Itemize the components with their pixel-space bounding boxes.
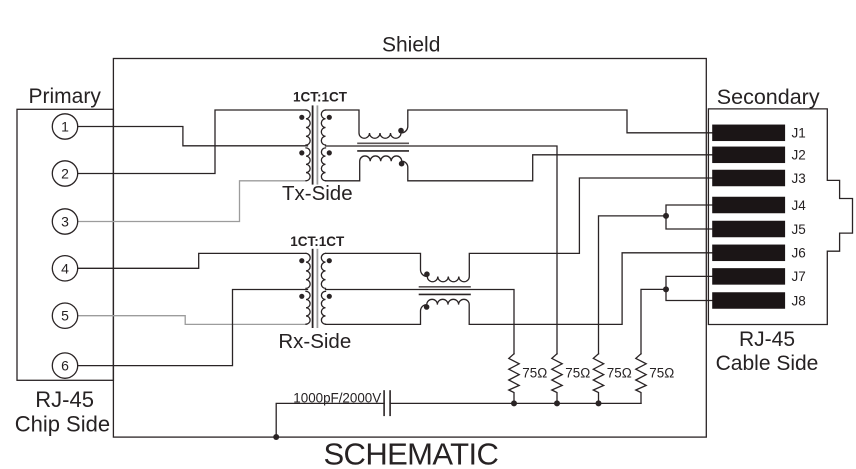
svg-text:J8: J8	[792, 293, 806, 308]
pin 2 circle	[52, 161, 77, 186]
pin 5 circle	[52, 303, 77, 328]
pin 3 circle	[52, 209, 77, 234]
svg-text:J2: J2	[792, 148, 806, 163]
T2 polarity dots	[299, 258, 332, 299]
RJ-45 cable-side connector outline	[708, 109, 852, 325]
transformer T1 Tx secondary winding (right)	[321, 110, 325, 145]
svg-text:Shield: Shield	[382, 34, 440, 57]
wire pin6 to Rx primary center tap	[78, 290, 308, 366]
connector contact J3 bar	[712, 170, 785, 187]
svg-text:6: 6	[61, 358, 69, 374]
svg-text:J1: J1	[792, 126, 806, 141]
svg-text:75Ω: 75Ω	[565, 365, 590, 380]
svg-text:J6: J6	[792, 246, 806, 261]
resistor R4 75ohm	[636, 354, 646, 404]
L1 polarity dots	[398, 128, 404, 167]
svg-text:Primary: Primary	[29, 85, 102, 108]
capacitor C1 1000pF/2000V plates	[383, 391, 385, 415]
L2 polarity dots	[424, 271, 430, 309]
svg-text:1000pF/2000V: 1000pF/2000V	[293, 390, 381, 405]
shield enclosure box	[113, 59, 706, 438]
choke L1 bottom winding, wire Tx bottom to J2	[326, 155, 713, 181]
wire pin4 to Rx primary top tap	[78, 253, 306, 268]
svg-text:Chip Side: Chip Side	[15, 412, 110, 437]
svg-text:J3: J3	[792, 171, 806, 186]
svg-text:J4: J4	[792, 198, 807, 213]
svg-text:Tx-Side: Tx-Side	[282, 182, 353, 205]
transformer T2 core	[312, 250, 314, 327]
svg-text:75Ω: 75Ω	[607, 365, 632, 380]
svg-text:75Ω: 75Ω	[649, 365, 674, 380]
connector contact J8 bar	[712, 292, 785, 309]
pin 6 circle	[52, 353, 77, 378]
RJ-45 chip-side box	[17, 109, 113, 380]
wire pin1 to Tx primary center tap	[78, 127, 308, 146]
svg-text:2: 2	[61, 166, 69, 182]
pin 1 circle	[52, 114, 77, 139]
choke L2 bottom winding, wire Rx bottom to J6	[326, 253, 713, 325]
svg-text:3: 3	[61, 214, 69, 230]
svg-text:1CT:1CT: 1CT:1CT	[293, 89, 348, 104]
svg-text:J5: J5	[792, 222, 806, 237]
pin 4 circle	[52, 256, 77, 281]
transformer T2 Rx secondary winding (right)	[321, 253, 325, 288]
resistor R2 75ohm	[552, 354, 562, 404]
connector contact J4 bar	[712, 197, 785, 214]
connector contact J5 bar	[712, 221, 785, 238]
choke L1 top winding, wire Tx top to J1	[326, 110, 713, 138]
transformer T1 core	[312, 106, 314, 183]
choke L1 core	[358, 142, 408, 144]
choke L2 top winding, wire Rx top to J3	[326, 178, 713, 282]
wire junction to J7 and J8, feed to resistor R4	[666, 276, 713, 300]
svg-text:J7: J7	[792, 269, 806, 284]
resistor R3 75ohm	[593, 354, 603, 404]
connector contact J1 bar	[712, 125, 785, 142]
svg-text:1CT:1CT: 1CT:1CT	[290, 234, 345, 249]
wire pin2 to Tx primary top tap	[78, 110, 306, 174]
wire capacitor to shield bottom	[276, 403, 384, 437]
transformer T2 Rx primary winding (left)	[306, 253, 310, 288]
connector contact J2 bar	[712, 147, 785, 164]
ground rail from capacitor to resistors	[390, 402, 641, 404]
resistor R1 75ohm	[509, 354, 519, 404]
svg-text:4: 4	[61, 260, 69, 276]
choke L2 core	[420, 286, 471, 288]
connector contact J6 bar	[712, 245, 785, 261]
svg-text:5: 5	[61, 308, 69, 324]
svg-text:SCHEMATIC: SCHEMATIC	[323, 437, 498, 469]
svg-text:Rx-Side: Rx-Side	[278, 330, 351, 353]
svg-text:RJ-45: RJ-45	[739, 328, 795, 351]
svg-text:Cable Side: Cable Side	[716, 352, 819, 375]
svg-text:RJ-45: RJ-45	[35, 387, 94, 412]
wire pin5 to Rx primary bottom tap (gray)	[78, 316, 307, 325]
connector contact J7 bar	[712, 268, 785, 285]
T1 polarity dots	[299, 115, 332, 156]
svg-text:Secondary: Secondary	[717, 85, 820, 109]
wire pin3 to Tx primary bottom tap (gray)	[78, 181, 307, 222]
svg-text:1: 1	[61, 119, 69, 135]
transformer T1 Tx primary winding (left)	[306, 110, 310, 145]
wire Tx secondary center tap to resistor R2	[326, 146, 558, 354]
wire junction to J4 and J5, feed to resistor R3	[666, 205, 713, 229]
svg-text:75Ω: 75Ω	[522, 365, 547, 380]
wire Rx secondary center tap to resistor R1	[326, 290, 515, 354]
